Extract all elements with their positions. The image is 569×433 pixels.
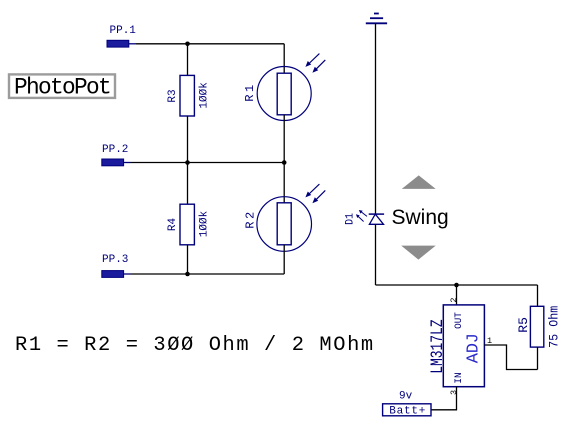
wire R1 top lead bbox=[283, 44, 285, 73]
svg-text:PP.1: PP.1 bbox=[110, 25, 137, 37]
wire R5 top lead bbox=[537, 285, 539, 306]
svg-text:Batt+: Batt+ bbox=[389, 405, 426, 417]
svg-text:1ØØk: 1ØØk bbox=[198, 210, 210, 237]
wire R3 bottom lead bbox=[187, 116, 189, 163]
connector PP.2 bbox=[102, 144, 131, 166]
voltage regulator U1 LM317LZ bbox=[427, 305, 484, 387]
connector PP.1 bbox=[107, 25, 136, 47]
title PhotoPot bbox=[9, 74, 115, 100]
svg-text:9v: 9v bbox=[399, 391, 413, 403]
svg-text:IN: IN bbox=[453, 372, 464, 383]
svg-text:D1: D1 bbox=[344, 213, 357, 225]
wire D1 to rail corner bbox=[375, 224, 377, 285]
svg-text:LM317LZ: LM317LZ bbox=[427, 319, 448, 373]
wire ground to D1 bbox=[375, 23, 377, 214]
wire R4 bottom lead bbox=[187, 245, 189, 274]
node junction PP.3/R4 bbox=[185, 272, 190, 277]
wire LM317 pin 1 to R5 bbox=[484, 345, 537, 370]
connector PP.3 bbox=[102, 254, 131, 277]
wire R5 bottom lead bbox=[537, 347, 539, 369]
svg-text:75 Ohm: 75 Ohm bbox=[547, 306, 562, 348]
wire R4 top lead bbox=[187, 163, 189, 205]
svg-text:Swing: Swing bbox=[392, 206, 449, 229]
svg-text:ADJ: ADJ bbox=[465, 333, 484, 363]
wire R3 top lead bbox=[187, 44, 189, 76]
resistor R4 bbox=[167, 204, 211, 245]
svg-text:PhotoPot: PhotoPot bbox=[14, 74, 110, 100]
wire LM317 pin 3 lead bbox=[431, 387, 457, 410]
swing up arrow bbox=[402, 175, 436, 189]
svg-text:R5: R5 bbox=[516, 317, 531, 333]
LED D1 bbox=[344, 210, 384, 225]
svg-text:3: 3 bbox=[449, 390, 459, 395]
svg-text:2: 2 bbox=[449, 298, 459, 303]
node junction rail/LM317 bbox=[454, 283, 459, 288]
wire PP.3 row bbox=[131, 273, 285, 275]
node junction PP.1/R3 bbox=[185, 42, 190, 47]
wire R2 top lead bbox=[283, 163, 285, 203]
ground bbox=[366, 14, 387, 24]
node junction PP.2/R3-R4 bbox=[185, 160, 190, 165]
svg-text:1ØØk: 1ØØk bbox=[198, 82, 210, 109]
wire R2 bottom lead bbox=[283, 245, 285, 274]
swing down arrow bbox=[401, 246, 436, 260]
wire horizontal rail bbox=[376, 284, 538, 286]
photoresistor R1 bbox=[243, 54, 325, 121]
wire R1 bottom lead bbox=[283, 115, 285, 163]
svg-text:R1 = R2 = 3ØØ Ohm / 2 MOhm: R1 = R2 = 3ØØ Ohm / 2 MOhm bbox=[15, 334, 375, 357]
resistor R5 bbox=[516, 306, 562, 348]
svg-text:R2: R2 bbox=[243, 209, 257, 228]
svg-text:PP.3: PP.3 bbox=[102, 254, 128, 266]
svg-text:PP.2: PP.2 bbox=[102, 144, 128, 156]
wire LM317 pin 2 lead bbox=[456, 285, 458, 305]
svg-text:OUT: OUT bbox=[453, 312, 464, 329]
svg-text:R4: R4 bbox=[167, 218, 179, 232]
photoresistor R2 bbox=[243, 184, 325, 251]
battery connector Batt+ bbox=[383, 404, 431, 418]
node junction PP.2/R1-R2 bbox=[282, 160, 287, 165]
svg-text:R1: R1 bbox=[243, 82, 257, 101]
svg-text:R3: R3 bbox=[167, 89, 179, 102]
wire PP.2 row bbox=[131, 162, 285, 164]
resistor R3 bbox=[167, 75, 211, 116]
wire PP.1 row bbox=[136, 43, 284, 45]
